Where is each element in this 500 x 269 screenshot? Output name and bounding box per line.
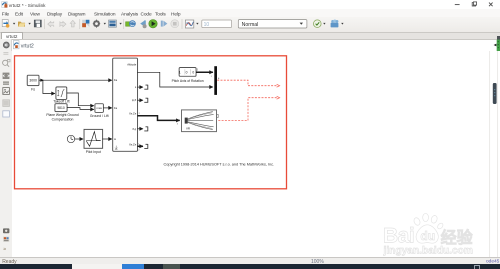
virtual-reality dashed signal from VR sink [218, 98, 277, 121]
sep [43, 19, 45, 29]
wire branch down to Takeoff Lift [43, 80, 55, 93]
svg-text:9810: 9810 [57, 106, 65, 110]
svg-text:2: 2 [138, 149, 140, 151]
svg-text:max: max [96, 106, 102, 110]
stop (disabled) [171, 20, 179, 28]
gear [93, 20, 100, 27]
light square icon [3, 110, 10, 116]
terminator psi,theta [137, 99, 143, 101]
svg-text:3: 3 [197, 68, 199, 71]
wire Pilot Input to plane input 3 [103, 138, 112, 140]
svg-text:3000: 3000 [29, 79, 37, 83]
VR sink block [182, 110, 219, 132]
svg-text:Ground / Lift: Ground / Lift [90, 114, 109, 118]
mux bar [214, 66, 217, 95]
window buttons [455, 4, 460, 6]
baidu watermark [383, 213, 474, 256]
svg-text:Xe,Ze: Xe,Ze [129, 142, 137, 146]
svg-text:Fa: Fa [114, 78, 118, 82]
sep [181, 19, 183, 29]
signal block Pilot Input [84, 130, 102, 154]
nav circle button [3, 42, 9, 48]
svg-text:VR: VR [186, 126, 190, 130]
green edge strip [497, 40, 500, 51]
wire 9810 to max [67, 108, 94, 110]
save [34, 20, 41, 27]
people icon [331, 23, 339, 28]
update diagram icon [126, 22, 131, 26]
menu bar [0, 9, 500, 17]
sep [123, 19, 125, 29]
fit view icon [3, 72, 10, 78]
wire Takeoff Lift to max [67, 93, 94, 106]
wire clock to Pilot Input [75, 138, 83, 140]
svg-text:Xe,Ze: Xe,Ze [129, 112, 137, 116]
svg-text:ψ,θ: ψ,θ [132, 98, 137, 102]
constant Pitch Axis of Rotation [1 0 0] [172, 68, 204, 84]
arrows icon [3, 82, 9, 84]
red annotation rectangle [15, 56, 287, 189]
back arrow [48, 21, 54, 27]
app icon [2, 2, 8, 8]
saturation block Takeoff Lift [53, 87, 69, 104]
svg-text:1: 1 [138, 144, 140, 146]
right scrollbar [488, 51, 500, 257]
wire max to plane input 2 [103, 107, 112, 109]
svg-text:经验: 经验 [441, 228, 474, 247]
terminator Xe,Ze (vector) [137, 145, 143, 147]
svg-text:Pitch Axis of Rotation: Pitch Axis of Rotation [172, 79, 204, 83]
clock [67, 135, 74, 142]
new icon [2, 20, 8, 27]
svg-text:w: w [114, 138, 116, 141]
wire Altitude to mux [137, 72, 213, 87]
svg-text:Takeoff Lift: Takeoff Lift [53, 100, 69, 104]
svg-text:θ,q: θ,q [132, 127, 136, 131]
sep [79, 19, 81, 29]
svg-text:3: 3 [177, 124, 179, 126]
canvas [12, 51, 500, 257]
terminator s [137, 86, 143, 88]
right collapse caret [494, 44, 497, 47]
port number marks [138, 76, 212, 151]
terminator theta,q [137, 128, 143, 130]
svg-text:Bai: Bai [383, 225, 414, 248]
left palette [0, 51, 13, 258]
toolbar [0, 17, 500, 33]
sim time field [202, 20, 232, 28]
mode combo [238, 20, 307, 28]
picture icon [3, 87, 10, 94]
taskbar [0, 264, 500, 269]
svg-text:Altitude: Altitude [127, 62, 136, 66]
step forward [161, 21, 163, 27]
svg-text:2: 2 [139, 113, 141, 115]
bottom icons [3, 228, 9, 233]
disabled icon [3, 99, 10, 106]
step back icon [140, 20, 145, 26]
up arrow [70, 20, 75, 27]
constant Fs "3000" [27, 75, 39, 91]
svg-text:Plane Weight Ground: Plane Weight Ground [46, 113, 78, 117]
constant 9810 [46, 104, 78, 122]
max block Ground / Lift [90, 104, 109, 118]
scope icon [185, 20, 193, 28]
zoom icon [3, 60, 8, 65]
svg-text:1: 1 [211, 76, 213, 78]
vector wire to mux [196, 71, 213, 73]
svg-text:1 0 0: 1 0 0 [179, 70, 196, 74]
wire Fs to plane input 1 [39, 79, 112, 81]
open folder [18, 22, 25, 27]
svg-text:Fa: Fa [114, 106, 118, 110]
junction arrow on Fs wire [40, 79, 44, 82]
run button [149, 20, 157, 28]
svg-text:Pilot Input: Pilot Input [86, 150, 101, 154]
board icon [109, 20, 117, 27]
svg-text:du: du [420, 229, 435, 243]
svg-text:Fs: Fs [31, 88, 35, 92]
tab bar [0, 32, 500, 41]
fwd arrow [60, 21, 66, 27]
library icon [82, 20, 89, 27]
model icon [13, 41, 19, 49]
green check icon [314, 20, 322, 28]
svg-text:Compensation: Compensation [52, 118, 74, 122]
svg-text:Copyright 1998-2014 HUMUSOFT s: Copyright 1998-2014 HUMUSOFT s.r.o. and … [164, 163, 275, 167]
title bar [0, 0, 500, 9]
vector wire Xe,Ze to VR sink [137, 116, 179, 121]
svg-text:jingyan.baidu.com: jingyan.baidu.com [383, 246, 473, 257]
virtual-reality dashed signal from mux [217, 80, 277, 86]
status bar [0, 257, 500, 265]
subsystem Plane (altitude model) [113, 58, 138, 151]
breadcrumb bar [0, 38, 500, 41]
